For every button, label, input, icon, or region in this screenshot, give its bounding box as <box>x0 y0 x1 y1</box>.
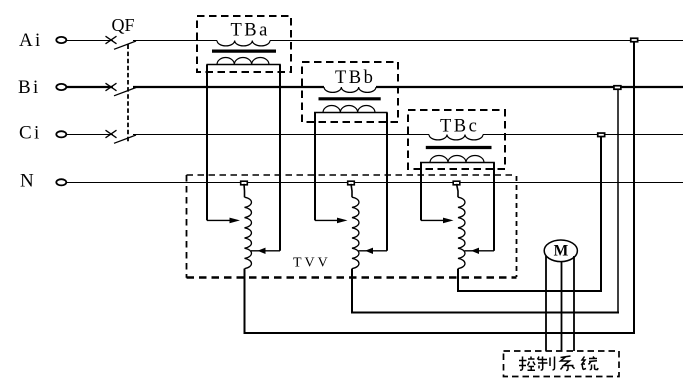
svg-text:TVV: TVV <box>293 256 331 271</box>
svg-text:Ci: Ci <box>19 122 42 143</box>
svg-text:TBb: TBb <box>335 68 375 88</box>
svg-text:Ai: Ai <box>19 30 43 51</box>
svg-text:QF: QF <box>112 15 135 35</box>
svg-text:N: N <box>20 170 34 191</box>
svg-text:M: M <box>554 243 569 260</box>
svg-text:Bi: Bi <box>18 77 41 98</box>
svg-text:TBa: TBa <box>231 20 270 40</box>
svg-text:TBc: TBc <box>440 117 479 137</box>
